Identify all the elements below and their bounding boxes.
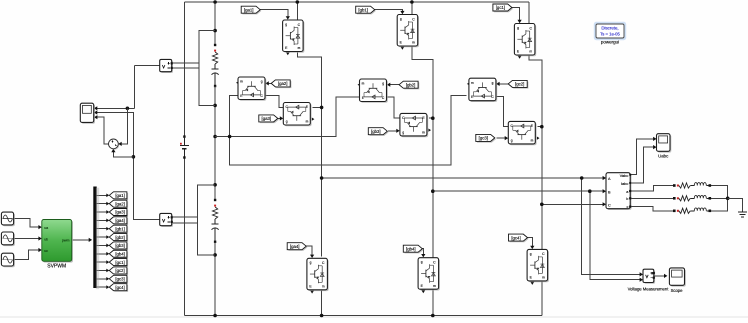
svg-text:[ga1]: [ga1] — [115, 193, 125, 198]
svg-text:Ts = 1e-05: Ts = 1e-05 — [600, 32, 620, 37]
svg-text:[gc1]: [gc1] — [496, 5, 505, 10]
svg-text:[ga3]: [ga3] — [115, 210, 125, 215]
svg-text:[gc4]: [gc4] — [511, 235, 520, 240]
svg-text:Voltage Measurement: Voltage Measurement — [628, 286, 670, 291]
svg-text:g: g — [261, 80, 263, 84]
svg-text:Iabc: Iabc — [621, 181, 629, 186]
svg-text:m: m — [422, 130, 425, 134]
svg-text:m: m — [412, 41, 415, 45]
svg-text:m: m — [433, 284, 436, 288]
svg-text:Scope: Scope — [671, 288, 684, 293]
svg-text:[gc3]: [gc3] — [115, 277, 124, 282]
svg-text:Discrete,: Discrete, — [601, 26, 618, 31]
svg-text:m: m — [362, 82, 365, 86]
svg-text:[ga2]: [ga2] — [115, 201, 125, 206]
svg-text:SVPWM: SVPWM — [47, 264, 66, 270]
svg-text:[gb1]: [gb1] — [115, 226, 125, 231]
svg-text:[gc4]: [gc4] — [115, 285, 124, 290]
svg-text:[gc3]: [gc3] — [479, 136, 488, 141]
svg-text:g: g — [402, 130, 404, 134]
svg-text:pwm: pwm — [62, 239, 70, 243]
svg-text:m: m — [471, 81, 474, 85]
svg-text:[gb3]: [gb3] — [371, 129, 381, 134]
svg-text:[gc2]: [gc2] — [515, 82, 524, 87]
svg-text:powergui: powergui — [601, 40, 619, 45]
svg-text:ub: ub — [44, 237, 48, 241]
svg-text:m: m — [529, 50, 532, 54]
svg-text:[ga1]: [ga1] — [244, 7, 254, 12]
svg-text:Vabc: Vabc — [620, 173, 629, 178]
svg-text:[ga2]: [ga2] — [278, 81, 288, 86]
svg-text:[gb2]: [gb2] — [406, 82, 416, 87]
svg-text:[gb1]: [gb1] — [358, 7, 368, 12]
svg-text:[ga4]: [ga4] — [290, 244, 300, 249]
svg-text:g: g — [400, 17, 402, 21]
svg-text:c: c — [626, 205, 628, 209]
svg-text:m: m — [322, 284, 325, 288]
svg-text:m: m — [542, 276, 545, 280]
svg-text:g: g — [530, 252, 532, 256]
svg-text:m: m — [240, 80, 243, 84]
svg-text:uc: uc — [44, 249, 48, 253]
svg-text:g: g — [285, 22, 287, 26]
svg-text:g: g — [310, 261, 312, 265]
svg-text:g: g — [421, 260, 423, 264]
svg-text:g: g — [382, 82, 384, 86]
svg-text:g: g — [492, 81, 494, 85]
svg-text:Uabc: Uabc — [658, 154, 669, 159]
svg-text:b: b — [626, 197, 628, 201]
svg-text:m: m — [298, 46, 301, 50]
svg-text:C: C — [608, 203, 611, 207]
svg-text:[gc2]: [gc2] — [115, 268, 124, 273]
svg-text:ua: ua — [44, 226, 48, 230]
svg-text:[gb4]: [gb4] — [406, 246, 416, 251]
svg-text:[gb3]: [gb3] — [115, 243, 125, 248]
svg-text:[ga4]: [ga4] — [115, 218, 125, 223]
svg-text:g: g — [517, 26, 519, 30]
svg-text:[gb2]: [gb2] — [115, 235, 125, 240]
svg-text:m: m — [531, 138, 534, 142]
svg-text:[gc1]: [gc1] — [115, 260, 124, 265]
svg-text:[ga3]: [ga3] — [262, 116, 272, 121]
svg-text:g: g — [511, 138, 513, 142]
svg-text:[gb4]: [gb4] — [115, 251, 125, 256]
svg-text:g: g — [286, 119, 288, 123]
svg-text:m: m — [306, 119, 309, 123]
